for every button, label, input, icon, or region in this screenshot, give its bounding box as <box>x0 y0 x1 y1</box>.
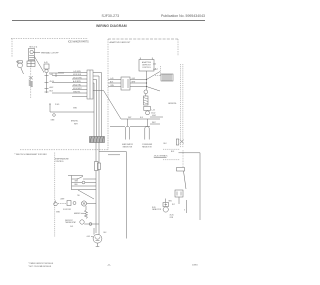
strip side labels <box>153 64 156 72</box>
adaptive defrost dashed left <box>107 39 109 150</box>
bus wire turn 2 <box>93 76 99 137</box>
mold internal contacts <box>29 55 34 59</box>
svg-text:GRN/YEL: GRN/YEL <box>73 92 80 94</box>
fill switch cam <box>45 69 48 72</box>
switch pivot dot <box>77 178 78 179</box>
mold lower section divider <box>27 61 35 67</box>
wire stub left low <box>108 154 120 156</box>
compressor motor <box>93 234 102 243</box>
svg-text:CONDENSER: CONDENSER <box>142 144 153 146</box>
svg-text:** SEE TECH DATA SHEET FOR INF: ** SEE TECH DATA SHEET FOR INFO <box>14 153 47 156</box>
svg-text:49-62: 49-62 <box>152 115 156 117</box>
svg-text:ADAPTIVE DEFROST: ADAPTIVE DEFROST <box>110 41 132 44</box>
svg-text:L-49: L-49 <box>110 78 113 80</box>
bus wire turn 4 <box>93 83 94 137</box>
ADC top pin stubs <box>140 58 152 60</box>
connector strip hatched <box>161 74 173 81</box>
splice cross on mold wire <box>29 76 33 79</box>
svg-text:49-62 YEL: 49-62 YEL <box>73 85 81 87</box>
dashed hline right <box>163 148 180 150</box>
connector on bus b <box>98 163 101 170</box>
node dots <box>146 79 147 87</box>
wire stubs right area <box>150 117 163 124</box>
splice cross mark <box>180 140 184 144</box>
svg-text:5-45: 5-45 <box>70 226 73 228</box>
wire dashed to lamp <box>58 203 66 205</box>
dashed cabinet edge pair b <box>182 64 184 148</box>
lamp X <box>82 202 86 206</box>
wire bimetal to heater <box>145 94 147 96</box>
water valve flag <box>18 61 23 63</box>
svg-text:WIRING DIAGRAM: WIRING DIAGRAM <box>96 24 127 28</box>
dashed freezer section boundary <box>11 37 88 39</box>
bus below connector a <box>95 143 97 162</box>
bus wires to compressor <box>96 170 99 235</box>
svg-text:WHT: WHT <box>152 122 156 124</box>
water valve coil <box>18 63 23 68</box>
mold heater element <box>29 80 33 87</box>
wire relay out 3 <box>130 86 147 88</box>
wire diagonal crossing <box>104 91 122 120</box>
wire cap top <box>165 199 167 203</box>
svg-text:DOOR SW: DOOR SW <box>63 209 71 211</box>
bus below connector b <box>98 143 100 164</box>
wire relay out 1 <box>130 79 147 81</box>
svg-text:-11-: -11- <box>107 265 111 267</box>
P-49 wire <box>50 111 94 113</box>
control bracket <box>68 176 83 191</box>
fill switch body <box>44 64 49 69</box>
wire ADC down <box>146 71 148 90</box>
svg-text:BLK: BLK <box>140 117 143 119</box>
control wire 2 <box>72 182 96 184</box>
svg-text:L-49: L-49 <box>153 69 156 71</box>
defrost bimetal circle <box>144 90 148 94</box>
connector block inner pin line <box>89 70 91 99</box>
svg-text:4-62: 4-62 <box>153 64 156 66</box>
wire mid bus <box>121 118 160 120</box>
wire drop evap fan <box>128 119 148 127</box>
compressor start wire <box>93 228 95 235</box>
wire thermostat to bus <box>84 223 99 225</box>
control wire 4 <box>72 189 96 191</box>
svg-text:49-50 WHT: 49-50 WHT <box>73 88 82 90</box>
run capacitor plus box <box>163 203 169 207</box>
compressor label leader <box>91 236 93 239</box>
start relay box <box>175 190 183 197</box>
icemaker plug wire labels <box>73 71 82 94</box>
bus wire turn 3 <box>93 80 97 137</box>
thermal cutoff leader <box>33 51 40 53</box>
dashed stub right of label <box>163 159 180 161</box>
svg-text:ORN: ORN <box>75 181 78 183</box>
header rule <box>12 20 205 22</box>
temperature control label <box>55 157 70 163</box>
svg-text:ICE MAKER PARTS: ICE MAKER PARTS <box>68 40 89 43</box>
temperature control dashed top <box>20 149 108 151</box>
svg-text:DEFROST: DEFROST <box>65 220 73 222</box>
wire fan bus <box>110 126 150 128</box>
start circuit dotted drop <box>182 150 184 168</box>
wire tap ticks <box>45 76 49 93</box>
wire relay in 1 <box>108 79 121 81</box>
bus wire turn 1 <box>93 73 102 137</box>
svg-text:GRN/YEL: GRN/YEL <box>168 103 178 105</box>
svg-text:49-45: 49-45 <box>170 214 174 216</box>
svg-text:CONTROL: CONTROL <box>142 67 151 69</box>
door switch <box>54 202 58 206</box>
defrost heater hatched <box>144 96 149 105</box>
svg-text:WHT: WHT <box>128 117 131 119</box>
svg-text:4-45: 4-45 <box>87 236 90 238</box>
dashed stub near strip <box>155 66 161 76</box>
svg-text:* TIMED DEFROST MODELS: * TIMED DEFROST MODELS <box>28 263 54 265</box>
wire tap labels <box>50 74 55 93</box>
overload device <box>176 139 179 145</box>
start wire right <box>186 200 188 213</box>
inline fuse <box>89 223 92 226</box>
wire fill switch down <box>46 73 48 93</box>
svg-text:10/94: 10/94 <box>192 265 198 267</box>
wire lamp to bus <box>87 203 96 205</box>
defrost limit box <box>144 106 151 110</box>
svg-text:LIGHT: LIGHT <box>60 199 65 201</box>
condenser fan label <box>142 144 153 148</box>
svg-text:BRN/YEL: BRN/YEL <box>71 121 78 123</box>
control labels <box>75 181 81 197</box>
temperature control dashed left <box>54 153 56 238</box>
light lamp symbol <box>81 201 86 206</box>
svg-text:THERMAL CUTOFF: THERMAL CUTOFF <box>41 52 60 55</box>
mold motor circle <box>30 50 33 53</box>
wire stub right low <box>93 90 104 92</box>
mold lower section <box>27 61 35 67</box>
defrost heater lower zigzag <box>84 206 87 218</box>
wire diagonal to lamp row <box>78 190 94 199</box>
wire main run right <box>99 152 127 239</box>
relay wire labels <box>110 78 135 87</box>
wire diagonal down-right <box>147 87 161 92</box>
svg-text:55-62: 55-62 <box>151 113 155 115</box>
run capacitor plus sign <box>165 203 168 205</box>
svg-text:* NOT ON SOME MODELS: * NOT ON SOME MODELS <box>28 266 52 268</box>
wire mold dotted tail <box>30 86 32 98</box>
svg-text:49-51 BLK: 49-51 BLK <box>73 74 82 76</box>
icemaker plug wires left <box>52 73 87 97</box>
svg-text:49-54 ORN: 49-54 ORN <box>73 78 82 80</box>
dashed freezer left edge <box>11 38 13 57</box>
svg-text:WHT: WHT <box>74 123 78 125</box>
svg-text:L-55: L-55 <box>152 109 155 111</box>
defrost thermostat lower <box>80 220 84 224</box>
wire mold diagonal <box>34 57 44 73</box>
wire relay out 2 <box>130 82 147 84</box>
control wire 3 <box>72 185 96 187</box>
wire diagonal up-right <box>147 72 161 80</box>
wire relay in 2 <box>108 82 121 84</box>
door switch stub <box>55 201 57 203</box>
switch second <box>67 201 71 206</box>
switch blade <box>78 176 84 179</box>
defrost thermostat circle <box>146 111 150 115</box>
harness connector P-6 hatched <box>90 137 105 143</box>
defrost relay K1 <box>121 77 130 90</box>
P-49 bracket <box>49 104 51 112</box>
control lamp small <box>82 181 85 184</box>
evaporator fan label <box>122 143 134 148</box>
evaporator fan motor coil <box>125 126 129 139</box>
connector block J1 <box>87 70 93 99</box>
thermostat lower labels <box>65 220 76 228</box>
adaptive defrost dashed top <box>108 38 178 40</box>
ADC box label <box>142 61 152 69</box>
wire mold dotted down <box>30 67 32 81</box>
P-49 node circle <box>53 114 56 117</box>
svg-text:49-45 ORN/BLK: 49-45 ORN/BLK <box>154 155 168 157</box>
ice maker mold body <box>29 48 35 61</box>
connector on bus a <box>95 162 99 171</box>
heater label leader <box>81 212 84 214</box>
compressor ground stub <box>96 243 100 246</box>
relay internal <box>123 79 128 88</box>
adaptive defrost dashed right <box>177 39 179 56</box>
run capacitor labels bottom <box>170 214 174 218</box>
wire to connector <box>49 73 64 77</box>
run capacitor labels left <box>152 207 162 211</box>
svg-text:L-49 GRN: L-49 GRN <box>73 71 81 73</box>
compressor internals <box>95 237 100 241</box>
condenser fan motor coil <box>145 126 149 139</box>
switch knob <box>73 202 76 205</box>
svg-text:CONTROL: CONTROL <box>55 161 64 163</box>
wire relay in 3 <box>108 86 121 88</box>
wire water valve drop <box>21 68 24 74</box>
svg-text:A-49 BRN: A-49 BRN <box>73 80 81 83</box>
control wire 1 with switch <box>72 178 96 180</box>
wire drift diagonal <box>184 171 187 189</box>
svg-text:Publication No. 5995434043: Publication No. 5995434043 <box>161 14 205 18</box>
svg-text:S: S <box>184 210 185 212</box>
start relay inner <box>177 192 181 196</box>
svg-text:A-62: A-62 <box>50 86 54 89</box>
svg-text:YEL: YEL <box>77 195 80 197</box>
svg-text:BLK: BLK <box>104 232 107 234</box>
svg-text:SJF30-273: SJF30-273 <box>102 14 120 18</box>
run capacitor body <box>163 207 168 212</box>
ADC control box U1 <box>139 60 154 72</box>
dashed cabinet edge pair a <box>180 64 182 148</box>
splice block <box>177 168 185 172</box>
wire corner right <box>179 153 201 220</box>
run wire label underline <box>154 156 167 158</box>
wire below start relay <box>178 197 180 204</box>
